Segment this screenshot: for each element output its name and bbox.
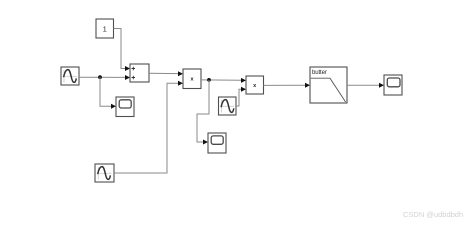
scope block Scope2: [208, 133, 226, 153]
scope block Scope1: [116, 97, 134, 117]
sine wave source Sine Wave 1: [61, 67, 79, 85]
wire constant to sum input 1: [114, 29, 131, 72]
wire sine1 to sum input 2: [79, 75, 130, 80]
junction node on product1 output: [207, 78, 211, 82]
wire sine2 to product1 input 2: [114, 81, 183, 173]
wire junction to scope1: [100, 77, 116, 109]
wire product2 to butter filter: [264, 83, 311, 88]
scope block Scope3: [384, 75, 402, 95]
wire junction to scope2: [197, 80, 209, 145]
wire sine3 to product2 input 2: [236, 87, 246, 106]
svg-text:CSDN @udbdbdh: CSDN @udbdbdh: [403, 210, 463, 219]
wire butter to scope3: [347, 83, 384, 88]
constant block Constant "1": [96, 19, 114, 38]
filter block butter (Analog Filter Design): [310, 67, 347, 103]
product block Product 1 "x": [183, 69, 201, 89]
svg-text:butter: butter: [312, 70, 327, 76]
junction node on sine1 wire: [98, 75, 102, 79]
wire product1 to product2 input 1: [201, 78, 246, 83]
svg-text:1: 1: [103, 24, 107, 33]
sine wave source Sine Wave 3: [219, 97, 237, 115]
wire sum to product1 input 1: [149, 71, 183, 76]
sine wave source Sine Wave 2: [95, 164, 114, 182]
product block Product 2 "x": [246, 76, 264, 94]
sum block Sum: [130, 64, 149, 82]
